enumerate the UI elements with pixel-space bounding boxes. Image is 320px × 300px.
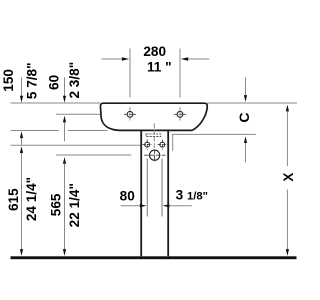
dim 280 arrow right xyxy=(181,57,210,60)
dim 280 extension line right xyxy=(179,49,181,98)
faucet hole right crosshair xyxy=(174,107,186,121)
svg-text:150: 150 xyxy=(1,69,16,92)
reference line C level xyxy=(172,133,256,135)
svg-text:24 1/4": 24 1/4" xyxy=(24,177,39,221)
faucet hole left crosshair xyxy=(124,107,136,121)
bolt hole right crosshair xyxy=(158,140,167,150)
bolt hole left crosshair xyxy=(143,140,152,150)
basin outline xyxy=(100,103,207,130)
svg-text:80: 80 xyxy=(120,188,135,203)
svg-text:5 7/8": 5 7/8" xyxy=(24,62,39,99)
svg-text:2 3/8": 2 3/8" xyxy=(67,62,82,99)
dim X line xyxy=(286,105,289,256)
svg-text:280: 280 xyxy=(143,44,166,59)
inner reference line left xyxy=(146,159,148,217)
dim line left x64 xyxy=(63,77,66,256)
svg-text:60: 60 xyxy=(47,75,62,90)
reference line drain level xyxy=(56,154,131,156)
pedestal left edge xyxy=(140,131,142,256)
dim 80 arrow right xyxy=(163,204,192,207)
overflow dashed box xyxy=(146,134,161,137)
dim 280 arrow left xyxy=(102,57,130,60)
dim 280 extension line left xyxy=(129,49,131,98)
svg-text:615: 615 xyxy=(6,188,21,211)
floor line xyxy=(11,256,297,259)
dim line left x21 xyxy=(20,77,23,256)
reference line rim level left xyxy=(11,102,101,104)
svg-text:X: X xyxy=(281,173,296,182)
svg-text:565: 565 xyxy=(49,193,64,216)
svg-text:22 1/4": 22 1/4" xyxy=(67,183,82,227)
svg-text:11 ": 11 " xyxy=(147,59,172,74)
svg-text:C: C xyxy=(236,113,252,123)
svg-text:3 1/8": 3 1/8" xyxy=(176,188,208,203)
reference line faucet level xyxy=(56,113,100,115)
inner reference line right xyxy=(161,159,163,217)
dim 80 arrow left xyxy=(121,204,147,207)
drain crosshair xyxy=(144,149,165,161)
dim C arrows xyxy=(244,77,247,162)
reference line basin bottom level xyxy=(11,130,108,132)
reference stub right of pedestal xyxy=(172,135,174,152)
pedestal centerline xyxy=(153,123,155,149)
reference line bolt level xyxy=(11,144,142,146)
pedestal right edge xyxy=(167,131,169,256)
reference line rim level right xyxy=(207,102,297,104)
